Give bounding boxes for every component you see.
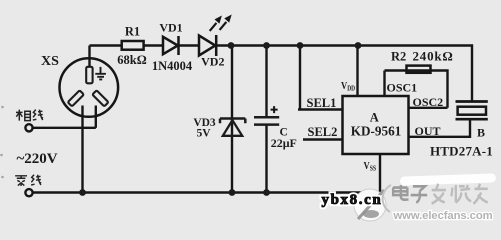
junction dots bottom rail — [79, 189, 270, 196]
watermark 电子发烧友 — [393, 184, 488, 204]
svg-text:R1: R1 — [125, 25, 140, 39]
svg-text:OSC2: OSC2 — [413, 95, 444, 109]
svg-text:5V: 5V — [196, 128, 211, 140]
子 — [411, 186, 428, 202]
svg-text:OUT: OUT — [415, 124, 441, 138]
capacitor C plates — [254, 117, 279, 124]
wire SEL branch — [298, 46, 343, 140]
wire OUT — [409, 119, 471, 137]
svg-text:1N4004: 1N4004 — [152, 59, 193, 73]
watermark ybx8.cn — [322, 192, 383, 208]
junction dots top rail — [228, 42, 362, 49]
watermark white swirl circle — [354, 189, 386, 221]
socket XS circle — [60, 58, 119, 117]
label 相线 live wire — [16, 110, 43, 121]
wire bottom rail — [33, 154, 380, 193]
zener VD3 — [220, 119, 245, 136]
terminal neutral — [25, 189, 32, 196]
svg-text:R2: R2 — [391, 49, 406, 63]
resistor R2 — [407, 66, 431, 73]
svg-text:ybx8.cn: ybx8.cn — [322, 192, 383, 208]
wire OSC2 — [409, 107, 448, 109]
socket ground symbol — [95, 67, 106, 80]
友 — [473, 184, 487, 204]
zener VD3 branch wire — [231, 46, 233, 193]
svg-text:240kΩ: 240kΩ — [413, 48, 454, 63]
watermark white smear — [400, 173, 496, 185]
resistor R1 — [122, 41, 144, 50]
capacitor plus sign — [271, 106, 278, 113]
svg-text:SEL2: SEL2 — [308, 125, 338, 139]
svg-text:68kΩ: 68kΩ — [117, 53, 146, 67]
label 零线 neutral wire — [15, 175, 41, 186]
svg-text:KD-9561: KD-9561 — [351, 124, 402, 139]
wire R2 loop top — [385, 71, 448, 108]
svg-text:XS: XS — [41, 54, 59, 69]
svg-text:OSC1: OSC1 — [387, 81, 418, 95]
svg-text:www.elecfans.com: www.elecfans.com — [393, 210, 493, 222]
svg-text:VD2: VD2 — [201, 55, 224, 69]
wire socket left pin down — [81, 106, 83, 193]
wire live — [33, 127, 96, 129]
LED VD2 — [199, 35, 216, 56]
svg-text:~220V: ~220V — [17, 151, 58, 167]
op-amp U1 IC A KD-9561 — [343, 96, 409, 154]
wire top rail — [90, 46, 473, 102]
piezo buzzer B body — [458, 107, 486, 115]
svg-text:B: B — [477, 126, 485, 140]
socket left slanted slot — [68, 90, 84, 106]
svg-text:HTD27A-1: HTD27A-1 — [430, 143, 493, 158]
svg-text:22μF: 22μF — [271, 136, 297, 150]
wire VDD — [356, 46, 358, 97]
diode VD1 — [163, 36, 179, 55]
LED arrows — [210, 15, 232, 31]
socket top slot — [86, 67, 92, 84]
烧 — [451, 185, 471, 203]
svg-text:VD1: VD1 — [159, 20, 182, 34]
wire OSC1 — [383, 71, 385, 97]
电 — [393, 185, 408, 200]
watermark elecfans logo arc — [383, 185, 391, 212]
terminal live — [25, 124, 32, 131]
发 — [432, 184, 446, 204]
svg-text:A: A — [370, 110, 379, 124]
socket right slanted slot — [92, 90, 108, 106]
edge specks — [0, 106, 4, 179]
capacitor C wires — [265, 46, 267, 193]
wire socket right pin down — [95, 106, 97, 128]
piezo buzzer B plates — [456, 102, 488, 120]
svg-text:SEL1: SEL1 — [307, 96, 337, 110]
